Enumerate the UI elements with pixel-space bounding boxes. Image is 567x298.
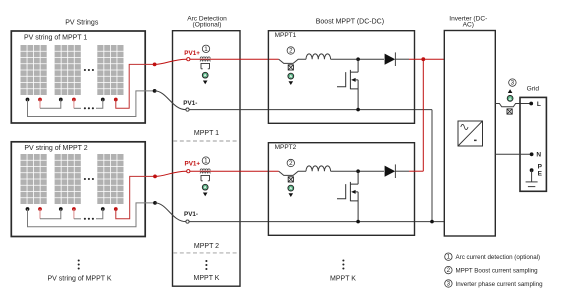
annotation circle 2 MPPT2 xyxy=(287,159,294,166)
svg-text:MPPT Boost current sampling: MPPT Boost current sampling xyxy=(456,268,539,275)
wire: inverter AC L output with dip xyxy=(495,104,531,107)
annotation circle 2 MPPT1 xyxy=(287,47,294,54)
terminal PV1- section1 xyxy=(186,108,189,111)
wire: PV1- rail row1 xyxy=(189,109,432,111)
wire: string2 link panel2+ onward xyxy=(73,209,75,219)
wire: MPPT2 input shunt dip xyxy=(279,171,306,175)
MOSFET Q2 xyxy=(337,171,358,221)
wire: curve to PV1+ terminal section2 xyxy=(155,171,187,176)
svg-text:PV string of MPPT K: PV string of MPPT K xyxy=(47,275,111,282)
node: grid L terminal xyxy=(529,102,533,106)
svg-text:PV1+: PV1+ xyxy=(184,50,200,57)
wire: curve to PV1+ terminal xyxy=(155,59,187,64)
arc detection box xyxy=(173,31,241,287)
svg-text:Grid: Grid xyxy=(527,85,540,92)
wire: string1 link panel2+ onward xyxy=(73,100,75,109)
svg-text:3: 3 xyxy=(447,280,451,287)
boost MPPT2 box xyxy=(268,143,414,236)
wire: DC+ bus down xyxy=(422,59,424,171)
wire: MPPT1 input shunt dip xyxy=(279,59,306,63)
legend annotation circle 3 xyxy=(445,280,452,287)
svg-text:MPPT 2: MPPT 2 xyxy=(194,243,219,250)
wire: inductor to diode MPPT2 xyxy=(331,170,384,172)
PV panel PV1-1 xyxy=(21,45,47,95)
svg-text:1: 1 xyxy=(447,254,451,261)
ellipsis in string 2 wiring xyxy=(84,218,94,220)
arrow up inverter sensor xyxy=(508,89,513,93)
node: DC+ bus junction xyxy=(421,57,425,61)
wire: PV1+ to MPPT1 input xyxy=(190,58,279,60)
legend annotation circle 1 xyxy=(445,253,452,260)
inductor L1 xyxy=(306,54,331,59)
wire: inverter AC N output xyxy=(495,153,531,155)
grid box xyxy=(520,97,546,191)
PV panel PV2-2 xyxy=(55,154,81,204)
wire: DC- bus down xyxy=(431,110,433,222)
svg-text:Boost MPPT (DC-DC): Boost MPPT (DC-DC) xyxy=(316,19,384,26)
node: string2 + junction xyxy=(153,175,157,179)
ellipsis below MPPT boxes xyxy=(342,259,344,269)
terminal PV1+ section2 xyxy=(187,170,190,173)
svg-text:PV string of MPPT 2: PV string of MPPT 2 xyxy=(24,145,87,152)
PV string box 1 xyxy=(11,31,145,123)
terminal dots string 1 xyxy=(26,98,118,102)
arc CT sensor CT1 xyxy=(200,57,210,84)
legend annotation circle 2 xyxy=(445,266,452,273)
wire: diode to box edge MPPT2 xyxy=(395,170,409,172)
green current sampler inverter xyxy=(507,96,513,102)
wire: PV1+ to MPPT2 input xyxy=(190,170,279,172)
wire: MPPT1 output red to inverter xyxy=(409,58,444,60)
wire: string1 positive out xyxy=(116,64,155,108)
ellipsis between panels string 1 xyxy=(84,69,94,71)
annotation circle 3 inverter xyxy=(509,79,516,86)
svg-text:1: 1 xyxy=(204,158,208,165)
svg-text:MPPT K: MPPT K xyxy=(194,275,220,282)
PV panel PV1-2 xyxy=(55,45,81,95)
wire: inductor to diode xyxy=(331,58,384,60)
svg-text:N: N xyxy=(536,152,541,159)
dashed separator MPPT 1 section xyxy=(173,140,239,142)
node: string2 - junction xyxy=(153,201,157,205)
PV string box 2 xyxy=(11,142,145,237)
inverter DC/AC symbol U1 xyxy=(458,121,483,146)
svg-text:AC): AC) xyxy=(463,22,474,29)
svg-text:E: E xyxy=(538,170,543,177)
inverter box xyxy=(444,31,495,237)
shunt current sensor MPPT2 xyxy=(288,177,294,197)
wire: string1 negative return xyxy=(28,91,155,117)
node: string1 - junction xyxy=(153,89,157,93)
node: string1 + junction xyxy=(153,63,157,67)
svg-text:MPPT1: MPPT1 xyxy=(275,32,297,39)
arc CT sensor CT2 xyxy=(200,169,210,196)
PV panel PV2-1 xyxy=(21,154,47,204)
svg-text:MPPT2: MPPT2 xyxy=(275,144,297,151)
node: MPPT2 rail junction xyxy=(356,220,360,224)
diode D1 xyxy=(385,54,396,65)
annotation circle 1 section2 xyxy=(202,157,209,164)
MOSFET Q1 xyxy=(337,59,358,109)
annotation circle 1 section1 xyxy=(202,45,209,52)
shunt sensor xbox inverter xyxy=(507,109,512,114)
boost MPPT1 box xyxy=(268,31,414,124)
wire: PV1- rail row2 xyxy=(189,221,444,223)
terminal dots string 2 xyxy=(26,207,118,211)
dashed separator MPPT 2 section xyxy=(173,252,239,254)
svg-text:PV string of MPPT 1: PV string of MPPT 1 xyxy=(24,34,87,41)
wire: string2 positive out xyxy=(116,176,155,218)
svg-text:3: 3 xyxy=(511,80,515,87)
svg-text:1: 1 xyxy=(204,46,208,53)
svg-text:Inverter phase current samplin: Inverter phase current sampling xyxy=(456,281,544,288)
node: MPPT1 switch node xyxy=(356,57,360,61)
node: grid PE terminal xyxy=(530,168,534,172)
ground symbol xyxy=(526,170,538,186)
PV panel PV1-3 xyxy=(97,45,123,95)
wire: MPPT2 output red to bus xyxy=(409,170,423,172)
ellipsis between panels string 2 xyxy=(84,178,94,180)
terminal PV1- section2 xyxy=(186,220,189,223)
node: MPPT1 rail junction xyxy=(356,108,360,112)
shunt current sensor MPPT1 xyxy=(288,65,294,85)
inductor L2 xyxy=(306,166,331,171)
wire: string1 link panel1+ to panel2- xyxy=(39,100,41,109)
wire: string2 negative return xyxy=(28,203,156,227)
svg-text:P: P xyxy=(538,163,543,170)
terminal PV1+ section1 xyxy=(187,58,190,61)
node: MPPT2 switch node xyxy=(356,169,360,173)
node: DC- bus junction xyxy=(430,220,434,224)
node: grid N terminal xyxy=(530,152,534,156)
svg-text:MPPT K: MPPT K xyxy=(330,276,356,283)
svg-text:Arc current detection (optiona: Arc current detection (optional) xyxy=(456,254,541,261)
svg-text:2: 2 xyxy=(289,47,293,54)
svg-text:PV1+: PV1+ xyxy=(185,161,201,168)
wire: curve to PV1- terminal section2 xyxy=(155,203,186,222)
svg-text:PV1-: PV1- xyxy=(183,100,197,107)
diode D2 xyxy=(385,166,396,177)
ellipsis in string 1 wiring xyxy=(84,107,94,109)
svg-text:PV Strings: PV Strings xyxy=(65,19,99,26)
wire: string2 link panel1+ to panel2- xyxy=(39,209,41,219)
wire: diode to box edge xyxy=(395,58,409,60)
svg-text:2: 2 xyxy=(447,267,451,274)
svg-text:PV1-: PV1- xyxy=(184,211,198,218)
svg-text:2: 2 xyxy=(289,160,293,167)
svg-text:MPPT 1: MPPT 1 xyxy=(194,130,219,137)
ellipsis arc box xyxy=(205,260,207,270)
svg-text:L: L xyxy=(537,101,541,108)
PV panel PV2-3 xyxy=(97,154,123,204)
ellipsis below PV boxes xyxy=(78,259,80,269)
svg-text:(Optional): (Optional) xyxy=(193,22,222,29)
wire: curve to PV1- terminal xyxy=(155,91,186,110)
